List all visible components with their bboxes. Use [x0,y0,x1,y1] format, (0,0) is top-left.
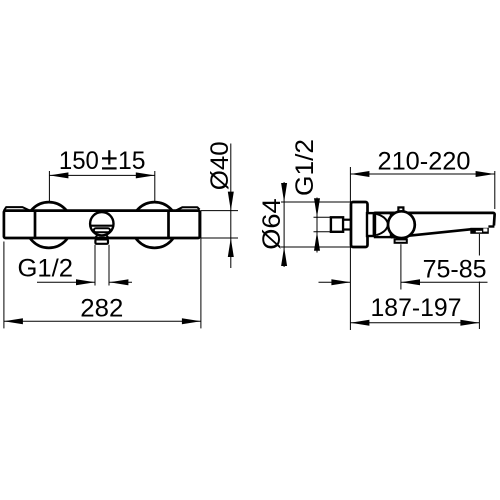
svg-text:187-197: 187-197 [371,294,462,322]
75-85 right tail line [401,281,488,283]
arrow pointing right at outlet left [76,279,95,285]
dimension 150±15 extension line left [48,171,50,202]
svg-text:G1/2: G1/2 [18,255,74,283]
arrow left of 150±15 [49,172,68,178]
plus-minus symbol [108,150,110,164]
valve body [375,213,391,237]
spout tip step [488,225,494,227]
svg-text:150: 150 [59,147,99,175]
knob chord line [90,225,113,227]
dimension 150±15 extension line right [154,171,156,202]
wall nipple G1/2 [331,217,343,232]
dimension Ø40 line [230,144,232,269]
wall face extension line [349,167,351,330]
arrow down Ø40 [228,192,234,211]
arrow right of 210-220 [476,171,495,177]
right cap separation line [167,211,170,238]
arrow left of 187-197 [350,320,369,326]
dimension 282 extension right [200,211,202,329]
dimension Ø40 extension bottom [201,237,238,239]
left cap separation line [34,211,37,238]
arrow up Ø40 [228,238,234,257]
svg-text:282: 282 [80,295,123,323]
dimension 150±15 line [49,174,154,176]
outlet leader line [400,244,402,289]
svg-text:210-220: 210-220 [378,148,471,176]
body bar [4,211,200,238]
dimension 282 line [4,320,201,322]
dimension 187-197 line [350,322,479,324]
aerator leader line upper [478,234,480,256]
arrow pointing right at wall face [331,279,350,285]
wall flange [351,202,368,247]
nipple top extension [314,216,331,218]
svg-text:Ø40: Ø40 [206,141,234,190]
flange top extension [281,201,351,203]
aerator notch white square [483,228,487,231]
arrow right of 150±15 [136,172,155,178]
outlet extension line right [108,245,110,286]
diverter knob circle [90,212,113,235]
outlet extension line left [94,245,96,286]
outlet stub front view [95,239,108,243]
connector [367,213,374,236]
aerator leader line lower [478,282,480,330]
knob band [94,228,110,232]
arrow left of 210-220 [350,171,369,177]
75-85 left tail line [319,281,351,283]
handle knob side view [398,207,403,212]
arrow down at flange top [281,183,287,202]
flange bottom extension [281,246,351,248]
G1/2 leader line left with arrow [37,281,95,283]
G1/2 leader line right with arrow [109,281,132,283]
knob neck right [106,235,108,238]
Ø64 dim line vertical [283,182,285,267]
knob neck left [95,235,97,238]
arrow left of 282 [4,318,23,324]
left handle circle [26,202,72,248]
dimension 210-220 line [350,173,494,175]
svg-text:G1/2: G1/2 [291,139,319,196]
arrow pointing left at outlet right [109,279,128,285]
G1/2 dim line vertical [316,198,318,253]
arrow right of 187-197 [460,320,479,326]
arrow up at flange bottom [281,247,287,266]
funnel detail [376,214,388,235]
right cap top chamfer [176,207,200,211]
outlet stub side view [395,239,407,242]
arrow up at nipple bottom [314,232,320,251]
arrow right of 282 [182,318,201,324]
dimension Ø40 extension top [201,210,238,212]
spout top line [375,213,495,226]
spout bottom slant [391,229,471,237]
right handle circle [132,202,178,248]
aerator block [470,228,489,234]
nipple adapter [343,220,351,230]
handle circle side view [388,211,415,238]
svg-text:75-85: 75-85 [423,256,487,284]
nipple bottom extension [314,231,331,233]
aerator white dash [476,231,482,233]
arrow down at nipple top [314,198,320,217]
arrow pointing left at outlet leader [401,279,420,285]
dimension 282 extension left [3,242,5,329]
svg-text:Ø64: Ø64 [258,198,286,250]
spout tip extension line [494,171,496,209]
left cap top chamfer [4,207,30,211]
svg-text:15: 15 [118,147,146,175]
